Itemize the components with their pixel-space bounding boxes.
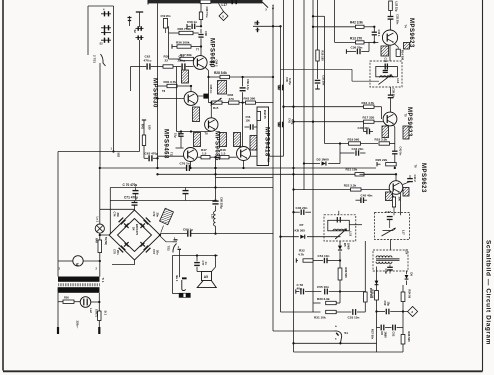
resistor R14 vertical [396,49,400,56]
transistor T6 MPS9623 [389,181,403,195]
svg-text:220v~: 220v~ [76,321,80,329]
svg-text:C38: C38 [384,58,388,63]
capacitor C61 [181,63,183,69]
svg-text:R42 3.9k: R42 3.9k [350,21,363,25]
osc cap top [384,64,386,70]
svg-text:2: 2 [96,267,98,271]
mains terminal left [57,327,59,334]
diode D6 [406,271,408,274]
wire T8 base [158,98,185,100]
wire T11 base feed [158,155,184,157]
resistor R42b 3.9k [356,25,365,28]
wire C69 row right [191,233,274,235]
wire osc out [390,87,392,95]
speaker driver box A5 [215,256,217,268]
node C58 [200,25,202,27]
wire rail 174 [158,173,397,175]
wire C65 stub [198,95,204,97]
svg-text:C47: C47 [385,210,391,214]
wire hatch box lead [161,226,164,233]
resistor R30 3.9k [314,302,321,304]
wire R23 down [393,207,395,215]
switch TS1 arm [101,54,106,66]
bus V325 [324,16,326,143]
capacitor C68 electrolytic [212,200,218,202]
capacitor C45b [356,199,361,201]
svg-text:T9: T9 [205,132,209,136]
wire C43 D3 column [339,144,341,164]
svg-text:R36 100k: R36 100k [176,41,190,45]
wire rails left drop [109,188,111,235]
svg-text:C50: C50 [383,301,387,306]
svg-text:C58 1n: C58 1n [187,20,197,24]
capacitor C73 [146,248,151,253]
diode D3 [304,163,320,165]
capacitor C70 [135,188,137,191]
svg-text:R22 3.3k: R22 3.3k [344,183,357,187]
oscillator dashed box [370,61,402,87]
bottom bus [294,351,404,353]
wire motor row [58,260,73,262]
wire Si1 to terminal [98,321,100,329]
node bridge right corner [159,234,161,236]
wire R49 to transformer [99,253,101,277]
svg-text:C77: C77 [201,261,205,266]
node junction 582 [112,150,114,152]
svg-text:220 µ: 220 µ [178,59,186,63]
svg-text:MPS9468: MPS9468 [163,129,169,159]
svg-text:D7: D7 [300,223,304,227]
svg-text:C66 4.7µ: C66 4.7µ [246,79,250,90]
svg-text:L14: L14 [404,250,408,255]
wire R35 rail [168,26,170,59]
resistor R20 22k [377,163,381,165]
svg-text:L13: L13 [396,79,400,84]
svg-text:R41: R41 [140,124,144,129]
capacitor C64 [210,61,214,63]
capacitor C65 solid [203,94,208,99]
capacitor C48 [387,266,393,268]
capacitor C56 [296,291,300,293]
resistor R21 15k [355,173,364,176]
wire R33 bottom [364,302,366,312]
wire driver box to bus [269,155,284,157]
hatch box T6 right [403,188,409,197]
osc trimmer arrow [379,75,392,85]
svg-text:20n: 20n [116,250,120,255]
switch S2 contact b [136,37,144,39]
capacitor C52 [392,325,394,331]
wire T9 collector [210,103,212,118]
wire C49 down [394,154,396,168]
svg-text:C 70 470µ: C 70 470µ [123,183,138,187]
wire R42b row [313,26,356,28]
svg-text:R31 10k: R31 10k [314,316,326,320]
capacitor C32 [388,16,394,18]
resistor R50 [58,301,63,303]
svg-text:0.47µ: 0.47µ [288,78,292,85]
switch TS1 contact c [101,32,111,34]
hatch box T8-T9 [193,107,200,122]
speaker horn [197,281,216,288]
svg-text:C36 20n: C36 20n [351,45,363,49]
switch TS2 contact 1 [173,241,178,243]
wire R17 long row [294,121,364,123]
svg-text:R21 15k: R21 15k [346,168,358,172]
wire left output column [376,267,378,353]
svg-text:L32 22µ: L32 22µ [394,2,398,12]
resistor R25 56k vertical [375,291,379,301]
svg-text:20n: 20n [116,213,120,218]
hatch box T11 bias [194,133,201,147]
svg-text:0.05(T): 0.05(T) [94,309,97,317]
switch TS1 contact a [101,13,111,15]
svg-text:R28 5.6k: R28 5.6k [214,71,227,75]
capacitor C33 [315,79,321,81]
svg-text:1n: 1n [204,262,208,265]
svg-text:C56: C56 [246,115,251,119]
wire R18 long row [284,106,364,108]
diode D4c [125,243,129,247]
switch S51 arm [263,2,269,7]
wire R18 to base [381,107,383,119]
wire right output column [402,285,404,352]
hatch box T7 emitter [218,81,227,95]
svg-text:C52: C52 [392,332,396,337]
svg-text:MPS9680: MPS9680 [209,38,215,68]
transistor T9 MPS9686 [205,118,218,131]
lamp La2 [80,297,91,308]
wire caps row [377,327,381,329]
wire T6 collector [395,174,397,180]
wire L16 to C69 row [215,226,217,233]
wire R41 bottom [143,146,145,159]
wire osc row [281,68,353,70]
capacitor C55 [324,289,326,295]
resistor R46 [222,102,229,104]
svg-text:TS2: TS2 [166,246,170,252]
resistor R28 [209,76,221,78]
capacitor C39 [388,94,393,96]
resistor R32 4.7k [296,260,298,262]
wire antenna column [139,40,141,152]
svg-text:C43 20n: C43 20n [352,147,364,151]
resistor R18b 3.3k [390,143,395,145]
hatch box T5 right 6.4V [403,126,409,139]
svg-text:4: 4 [103,7,105,11]
svg-text:3: 3 [265,9,267,12]
wire C67 column [176,67,178,132]
jack spring contact [182,280,186,291]
capacitor C62 [146,63,148,69]
motor M1 [73,256,83,266]
svg-text:D5: D5 [343,243,347,247]
resistor R37 [169,58,181,60]
svg-text:L15: L15 [349,232,353,237]
svg-text:T7: T7 [196,48,200,52]
diode D5b [375,281,379,285]
wire T5 emitter column [394,125,395,127]
resistor R31 10k [326,310,337,313]
svg-text:1: 1 [111,147,113,151]
svg-text:S2: S2 [133,30,137,34]
wire bridge bottom corner [112,260,135,265]
svg-text:R26 560: R26 560 [407,332,411,343]
svg-text:S2: S2 [100,42,104,46]
svg-text:T4: T4 [404,25,408,29]
svg-text:C65 1n: C65 1n [209,85,213,94]
svg-text:R27 56k: R27 56k [370,329,374,340]
transformer L14 dashed box [373,250,408,271]
hatch service box tilted [160,208,174,224]
svg-text:R25 56: R25 56 [370,290,374,299]
svg-text:C60: C60 [204,31,208,36]
wire lamp to R49 [99,168,101,224]
component C59 box [163,19,167,29]
wire R31 row [281,311,321,313]
wire speaker rail [172,255,217,257]
svg-text:C40 40n: C40 40n [358,126,370,130]
svg-text:MPS9623: MPS9623 [420,163,426,193]
wire T4 to osc box [389,45,391,61]
wire mains right [98,293,100,311]
page border left [2,0,4,371]
svg-text:150: 150 [246,119,251,123]
wire T10 emitter [243,161,245,169]
switch S2 contacts mid [257,21,259,26]
svg-text:Bu 1: Bu 1 [175,276,179,282]
svg-text:M: M [75,263,79,266]
svg-text:A5: A5 [204,275,208,279]
svg-text:R17 330: R17 330 [363,116,375,120]
svg-text:+: + [335,325,337,329]
resistor R19 560 [325,143,349,145]
svg-text:C55 10n: C55 10n [317,285,329,289]
L14 core lines [376,258,400,260]
L15 core box [328,220,350,231]
svg-text:Rv5: Rv5 [213,106,219,110]
osc tank box [376,67,398,77]
wire T7 emitter column [205,67,209,70]
svg-text:L17: L17 [401,230,405,235]
wire T6 collector column [400,193,402,216]
resistor R36 [172,46,177,48]
hatch box driver [250,136,257,151]
svg-text:MPS9630: MPS9630 [152,78,158,108]
wire TS2 top link [160,236,173,242]
capacitor C75 [119,248,124,253]
capacitor C36 [346,51,356,53]
svg-text:S2: S2 [253,22,257,26]
hatch box T7 bias [182,70,189,83]
svg-text:3: 3 [59,267,61,271]
svg-text:C59 20n: C59 20n [161,14,171,18]
antenna rod [136,11,143,13]
antenna terminal [129,16,131,26]
bridge D4 outer diamond [109,210,160,260]
resistor R23 390 vertical [392,197,395,207]
wire T10 collector [242,103,244,147]
hatch box T12 bias [234,133,241,147]
coil L17 box in bar [200,0,211,3]
wire rail C71 [110,200,215,202]
svg-text:T6: T6 [413,165,417,169]
top chassis bar [148,0,263,3]
bus V313 [312,0,314,312]
bus V334 [334,0,336,42]
capacitor C35 [277,85,279,90]
bridge D4 inner diamond [118,219,152,252]
svg-text:582: 582 [117,153,121,158]
resistor R40 [158,85,168,87]
bus V305 [303,0,305,190]
wire output row [377,311,386,313]
transformer Tr1 secondary bar [58,287,100,293]
wire row C62 R38 C61 [131,66,147,68]
wire bridge feed row [100,208,135,210]
capacitor C69 electrolytic [187,231,189,237]
svg-text:1N60: 1N60 [383,332,387,339]
wire T8 collector [190,86,192,92]
wire L32 to C32 [390,11,392,17]
svg-text:R14 390: R14 390 [401,50,405,61]
svg-text:B30C375: B30C375 [135,224,139,236]
svg-text:C71 470µ: C71 470µ [124,195,138,199]
svg-text:470: 470 [229,97,234,101]
transistor T10 MPS9418 [237,147,251,161]
svg-text:C39 20n: C39 20n [391,88,395,99]
svg-text:MPS9686: MPS9686 [214,131,220,161]
hatch box mid bias [220,133,227,147]
wire L15 to L17 [349,224,362,226]
wire mains left [57,293,59,328]
svg-text:R30 3.9k: R30 3.9k [317,297,330,301]
diode D7 row [281,236,299,238]
wire TS1 top [88,5,114,7]
capacitor C47 [387,216,393,218]
hatch box T5 left [382,126,389,138]
wire rail C70 [110,187,273,189]
svg-text:C33 20n: C33 20n [396,14,400,25]
bus V283 [283,0,285,156]
bus V293 [293,0,295,352]
svg-text:R20 22k: R20 22k [376,158,388,162]
svg-text:R49: R49 [94,238,98,243]
svg-text:470 u: 470 u [144,59,152,63]
L17 trimmer arrow [382,228,396,236]
svg-text:C33 20n: C33 20n [322,75,326,86]
wire osc feed [351,69,353,81]
svg-text:Schaltbild — Circuit Diagram: Schaltbild — Circuit Diagram [485,240,492,345]
wire row 131.5 [177,131,212,133]
svg-text:2: 2 [411,310,413,314]
resistor R47 [198,156,202,158]
resistor R35 [169,32,180,34]
transistor T5 MPS9623 [383,112,397,126]
capacitor bridge feed [132,202,138,204]
wire S1 to ground row [294,342,377,344]
wire output node [210,156,220,158]
resistor R22 3.3k [294,189,351,191]
wire S1 row [273,330,335,332]
svg-text:C34 1: C34 1 [377,30,381,37]
resistor R33 56k vertical [364,292,368,302]
wire T10 to driver box [250,155,257,157]
capacitor marks in bar [231,0,233,4]
mains terminal right [98,327,100,334]
svg-text:MPS9418: MPS9418 [264,127,270,157]
wire R29 to row [339,280,341,292]
diode D5 [339,241,341,246]
capacitor C71 [185,188,187,191]
svg-text:R35 750k: R35 750k [178,27,192,31]
svg-text:R42 55: R42 55 [263,110,267,119]
svg-text:5: 5 [222,14,224,18]
resistor R18 4.7k [364,105,375,108]
capacitor C74 [119,218,124,223]
svg-text:R19 560: R19 560 [348,138,360,142]
lamp La1 [95,224,104,233]
transformer Tr1 primary bar [58,277,100,282]
svg-text:D4: D4 [132,227,136,231]
capacitor C58 [188,25,191,27]
svg-text:C69 1µ: C69 1µ [183,228,193,232]
resistor R24 56 vertical [401,292,405,302]
svg-text:C53 10n: C53 10n [348,316,360,320]
transistor T8 MPS9630 [184,92,198,106]
capacitor C57 [245,126,250,128]
resistor R42 vertical [257,112,261,121]
resistor R16 vertical [316,50,319,61]
svg-text:C63 470µ: C63 470µ [145,152,159,156]
IF transformer L17 dashed box [375,213,410,240]
wire rail 177.5 partial [216,177,274,179]
svg-text:1.5: 1.5 [221,152,226,156]
resistor R48 [220,156,229,159]
capacitor C51 [380,325,382,331]
svg-text:C54 10n: C54 10n [318,254,330,258]
diode D4d [141,243,145,247]
switch TS2 arm [173,244,177,253]
capacitor C53 [352,309,354,315]
hatch box T6 below [386,192,393,201]
svg-text:La2: La2 [89,308,93,313]
svg-text:C44 2: C44 2 [413,175,417,183]
svg-text:D9: D9 [380,332,384,336]
wire T11 emitter [190,162,192,169]
page border right [482,0,484,371]
diamond callout 5 [219,12,228,21]
svg-text:R16 4.7k: R16 4.7k [362,101,375,105]
svg-text:S1: S1 [344,331,348,335]
wire primary left [57,261,59,277]
svg-text:KB 265: KB 265 [295,229,306,233]
svg-text:4.7k: 4.7k [298,252,304,256]
wire bridge top feed [134,201,136,203]
wire amp left rail [157,3,159,168]
hatch box T4 right [404,43,410,50]
svg-text:a: a [335,338,337,341]
capacitor C59 [198,34,203,36]
diode D4a [125,223,129,227]
svg-text:La 1: La 1 [96,217,100,223]
wire T6 emitter down [391,194,394,198]
jack body [179,293,191,298]
wire C32 to T4 [390,19,392,30]
jack contact tick [182,277,187,279]
inductor L32 vertical [389,1,393,11]
resistor R17 330 [364,120,375,123]
